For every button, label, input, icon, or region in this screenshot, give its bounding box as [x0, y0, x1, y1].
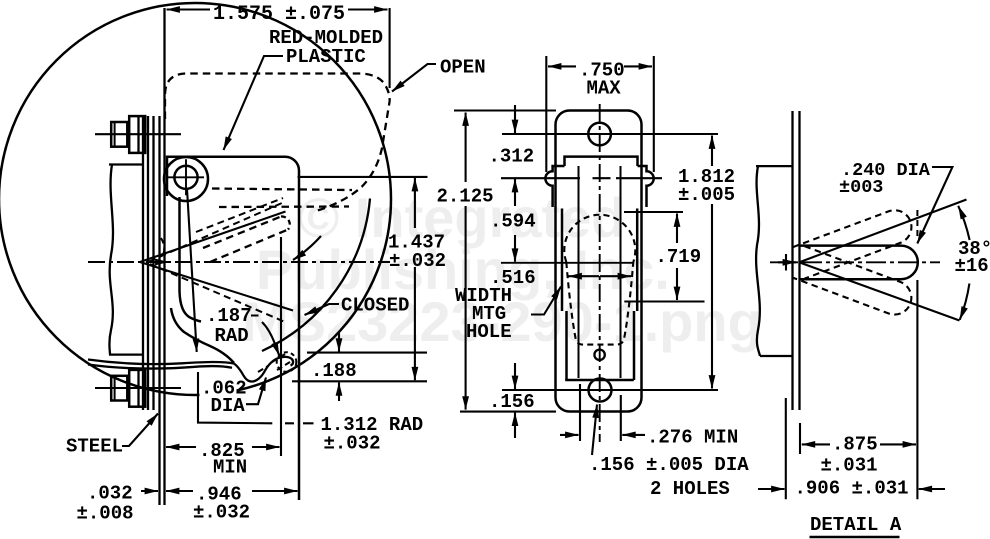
dim .750 left arrow [548, 65, 576, 67]
plate bottom extension line [460, 411, 556, 413]
label 1.312 RAD leader L [198, 372, 272, 423]
bracket piece bottom edge [109, 353, 143, 355]
dim .594 lower arrow [514, 235, 516, 262]
svg-text:2 HOLES: 2 HOLES [650, 478, 730, 500]
leader mtg hole [531, 287, 561, 315]
dim .875 left extension [799, 423, 801, 454]
solid ray upper [140, 212, 286, 263]
label 1.312 RAD leader dashes [285, 422, 314, 424]
open bail wire dashed line 2 [219, 205, 349, 208]
dim .946 right arrow [252, 490, 298, 492]
rail extension right [620, 395, 622, 441]
intermediate position dashed bar lower [210, 230, 288, 263]
toggle lever solid [799, 246, 918, 280]
intermediate position dashed bar upper [203, 217, 281, 249]
plate top extension line [454, 109, 556, 111]
inner rail right [620, 166, 622, 378]
pivot crosshair [168, 159, 204, 195]
svg-text:±.032: ±.032 [193, 502, 250, 524]
svg-text:1.575 ±.075: 1.575 ±.075 [213, 3, 345, 26]
svg-text:.875: .875 [832, 434, 878, 456]
dim .156 upper arrow [514, 363, 516, 389]
dim .875 right extension [916, 280, 918, 499]
hook swing arc 1.312 rad [262, 199, 370, 352]
swing radius line with arrow [187, 189, 197, 352]
lower angle ray [800, 263, 960, 321]
dim .276 right arrow [622, 434, 645, 436]
svg-text:RAD: RAD [215, 325, 249, 347]
dim 1.575 dimension line right arrow [348, 8, 388, 10]
dim .156 lower arrow [514, 413, 516, 438]
leader red-molded plastic [224, 56, 284, 150]
bottom bolt washer [129, 370, 145, 407]
svg-text:.188: .188 [311, 360, 357, 382]
dim .719 lower segment [676, 268, 678, 300]
right shelf and ear [638, 166, 654, 207]
bail wire closed position run A [180, 197, 202, 322]
bottom bolt centerline [95, 387, 181, 389]
right panel front line [791, 111, 793, 410]
dim .750 extension left [545, 56, 547, 172]
latch centerline reference line [501, 262, 634, 264]
svg-text:.594: .594 [490, 211, 536, 233]
dim .719 top reference [624, 211, 683, 213]
dim .719 upper segment [676, 214, 678, 244]
pivot boss circle [164, 157, 208, 201]
top bolt hex head [111, 122, 127, 147]
top mounting hole [588, 123, 611, 146]
dim .032 arrow [141, 490, 158, 492]
body pivot centerline [501, 177, 662, 179]
svg-text:±.032: ±.032 [389, 250, 446, 272]
bail travel arc with arrow [293, 236, 321, 260]
body wall right lower [633, 311, 636, 380]
latch body outline [167, 157, 299, 500]
hook tip hidden circle [277, 352, 297, 372]
leader open [392, 64, 436, 92]
svg-text:.276 MIN: .276 MIN [647, 427, 738, 449]
body wall right upper [636, 209, 639, 312]
pivot centerline extension [298, 176, 428, 178]
right bracket bottom edge [760, 355, 793, 357]
svg-text:MIN: MIN [213, 457, 247, 479]
dim 1.437 upper segment [414, 178, 416, 228]
dim .825 right arrow [252, 446, 280, 448]
svg-text:HOLE: HOLE [466, 321, 512, 343]
leader .240 dia [917, 167, 952, 244]
svg-text:.906 ±.031: .906 ±.031 [795, 478, 909, 500]
knob hidden outline circle part [564, 215, 635, 262]
bottom bolt washer inner line [137, 370, 139, 407]
leader closed [305, 304, 340, 315]
width double arrow left [569, 275, 600, 277]
svg-text:.312: .312 [489, 146, 535, 168]
dim .825 left arrow [166, 446, 196, 448]
dim 1.812 upper segment [711, 136, 713, 167]
dim .875 right arrow [880, 443, 916, 445]
lever centerline dash-dot [770, 261, 940, 263]
svg-text:2.125: 2.125 [437, 186, 494, 208]
hook tip hidden dashes [258, 354, 290, 372]
panel plate line 3 [152, 116, 154, 410]
dim .188 lower arrow [338, 382, 340, 401]
dashed ray upper [149, 203, 282, 262]
dim .906 left outside arrow [758, 488, 785, 490]
dim .276 left arrow [560, 434, 579, 436]
contact point arrow [148, 261, 169, 263]
body wall left upper [561, 209, 564, 312]
steel leaf rear line / datum [163, 8, 165, 505]
open position dashed outline [165, 74, 390, 212]
svg-text:±.005: ±.005 [678, 184, 735, 206]
right bracket wavy edge [756, 166, 760, 356]
svg-text:STEEL: STEEL [66, 436, 123, 458]
solid ray lower [140, 262, 293, 311]
dashed ray lower [150, 264, 285, 322]
leader steel [122, 414, 158, 447]
dim .875 right extension dashed top [916, 210, 918, 236]
dim .750 extension right [653, 56, 655, 172]
svg-text:±.031: ±.031 [821, 455, 878, 477]
bottom mounting hole [589, 379, 612, 402]
dashed lever down position [793, 246, 917, 319]
bracket piece top edge [109, 163, 143, 165]
svg-text:DETAIL A: DETAIL A [810, 514, 902, 536]
top bolt centerline [95, 133, 181, 135]
small wire hole [594, 350, 604, 360]
boss left dashed arc [161, 238, 164, 257]
body wall left lower [565, 311, 568, 380]
inner rail left [578, 166, 580, 378]
leader 2 holes [592, 405, 597, 456]
dashed ray upper 2 [196, 198, 283, 232]
svg-text:CLOSED: CLOSED [341, 295, 409, 317]
dim .875 left arrow [802, 443, 830, 445]
hook wire upper line [88, 360, 234, 365]
dim 1.812 lower segment [711, 204, 713, 389]
dim .594 upper arrow [514, 179, 516, 206]
leader .062 dia [246, 378, 266, 405]
dim .946 left arrow [166, 490, 193, 492]
svg-text:±003: ±003 [839, 177, 883, 198]
svg-text:.156 ±.005 DIA: .156 ±.005 DIA [589, 454, 749, 476]
upper angle ray [800, 200, 967, 263]
svg-text:MAX: MAX [587, 78, 622, 100]
svg-text:±16°: ±16° [955, 255, 990, 277]
left shelf and ear [545, 166, 564, 207]
contact arrow right view [778, 261, 796, 263]
detail balloon ellipse [0, 3, 391, 395]
hook centerline dash-dot [88, 261, 390, 263]
dim .750 right arrow [624, 65, 652, 67]
middle view vertical centerline [599, 104, 601, 442]
body bottom edge [565, 379, 634, 382]
dim .188 upper arrow [338, 331, 340, 352]
steel leaf front line [158, 116, 160, 505]
panel plate line 2 [147, 116, 149, 410]
svg-text:PLASTIC: PLASTIC [286, 46, 366, 68]
svg-text:±.032: ±.032 [324, 433, 381, 455]
dim 1.575 right extension line [389, 8, 391, 88]
dim .825 extension line [280, 237, 282, 456]
top bolt washer inner line [137, 116, 139, 153]
detail a underline [810, 536, 900, 538]
right bracket top edge [756, 165, 793, 167]
panel plate line 1 [142, 116, 144, 410]
angle arc upper [958, 206, 969, 240]
dim 1.437 lower segment [414, 267, 416, 380]
svg-text:.719: .719 [656, 246, 702, 268]
hook tip U-bend [234, 357, 293, 382]
right panel rear line [798, 111, 800, 410]
open bail wire dashed line 1 [212, 189, 352, 191]
bail wire closed position run B [171, 308, 234, 363]
dim .312 upper arrow [514, 105, 516, 133]
dim 2.125 upper segment [465, 113, 467, 183]
dim 2.125 lower segment [465, 206, 467, 410]
svg-text:.187: .187 [206, 305, 252, 327]
dim .188 upper reference line [307, 352, 427, 354]
label .062 DIA background mask [200, 373, 237, 413]
pivot hole [174, 166, 197, 189]
top hole center line horizontal [502, 133, 718, 135]
svg-text:OPEN: OPEN [440, 57, 486, 79]
dim .719 bottom reference [624, 300, 704, 302]
bracket piece wavy break edge [109, 165, 113, 355]
rail extension left [579, 384, 581, 441]
dim 1.575 dimension line left arrow [167, 8, 211, 10]
knob hidden outline taper [566, 262, 633, 345]
leader .187 rad [251, 316, 279, 356]
svg-text:.032: .032 [87, 483, 133, 505]
angle arc lower [960, 284, 970, 320]
top bolt washer [129, 116, 145, 153]
svg-text:.156: .156 [489, 391, 535, 413]
bottom hole center line horizontal [502, 389, 718, 391]
hook wire lower line [88, 365, 232, 369]
dim .906 left extension [785, 398, 787, 499]
mounting plate outline [556, 111, 642, 412]
width double arrow right [600, 275, 631, 277]
inner body top neck [565, 157, 638, 166]
svg-text:±.008: ±.008 [77, 503, 134, 525]
dim .906 right outside arrow [919, 488, 945, 490]
centerline cross tick [785, 254, 787, 271]
dashed lever up position [793, 205, 917, 278]
bottom bolt hex head [111, 376, 127, 401]
svg-text:DIA: DIA [211, 395, 246, 417]
dim .188 lower reference line [292, 380, 427, 382]
intermediate bar tip dashed cap [281, 216, 290, 229]
